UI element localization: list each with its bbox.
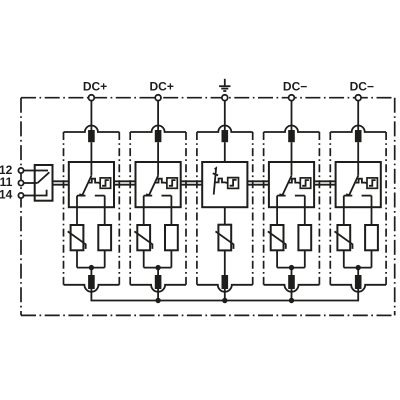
wire right branch to join, module 4: [304, 250, 306, 267]
switch blade tick, module 4: [279, 194, 283, 195]
link remote contact to module 1 upper: [53, 180, 69, 182]
svg-text:DC+: DC+: [150, 79, 174, 93]
fixed contact right, module 1: [95, 195, 105, 197]
switch feed wire inside box, module 5: [357, 162, 359, 176]
thermal disconnect fuse top, module 1: [88, 130, 95, 142]
thermal disconnect fuse top, module 2: [155, 130, 162, 142]
switch blade, module 5: [349, 176, 359, 197]
wire module 4 to bus: [291, 288, 293, 301]
wire fuse to switch box, module 3: [224, 142, 226, 162]
impulse symbol, module 3: [230, 180, 237, 186]
terminal circle DC- 1: [289, 95, 295, 101]
earth ground symbol: [224, 79, 226, 86]
wire terminal 1 down to module: [90, 101, 92, 131]
module 1 boundary left side: [63, 132, 65, 285]
switch feed wire inside box, module 2: [157, 162, 159, 176]
terminal circle 14: [18, 193, 23, 198]
bus junction dot 4: [289, 298, 294, 303]
varistor, module 4: [271, 225, 284, 250]
switch feed wire inside box, module 1: [90, 162, 92, 176]
switch feed wire inside box, module 4: [291, 162, 293, 176]
impulse symbol, module 2: [169, 180, 176, 186]
series element, module 5: [365, 225, 378, 250]
switch blade tick, module 1: [79, 194, 83, 195]
switch blade, module 2: [149, 176, 159, 197]
wire branch join, module 4: [277, 267, 305, 269]
junction dot, module 2: [155, 265, 160, 270]
impulse symbol, module 5: [369, 180, 376, 186]
svg-text:DC−: DC−: [350, 79, 374, 93]
wire join to bottom fuse, module 1: [90, 268, 92, 278]
trigger pulse link, module 5: [356, 179, 368, 184]
module 4 boundary right side: [318, 132, 320, 285]
switch blade, module 1: [82, 176, 92, 197]
enclosure boundary left: [20, 98, 22, 316]
spark-gap element stroke, module 3: [214, 168, 216, 195]
fixed contact left, module 4: [277, 195, 286, 197]
changeover fixed contact 12: [35, 170, 48, 172]
wire terminal 14: [24, 195, 35, 197]
link module 1 to module 2 lower: [114, 184, 136, 186]
wire branch join, module 5: [344, 267, 372, 269]
wire terminal 12: [24, 170, 35, 172]
wire right branch to join, module 1: [104, 250, 106, 267]
fixed contact right, module 5: [362, 195, 372, 197]
monitoring device box, module 5: [367, 178, 377, 188]
monitoring device box, module 3: [228, 178, 239, 189]
thermal disconnect fuse bottom, module 1: [88, 275, 95, 289]
module 5 boundary left side: [329, 132, 331, 285]
varistor diagonal, module 5: [335, 231, 353, 249]
varistor, module 5: [337, 225, 350, 250]
module 3 boundary top edge with plug-in dome: [197, 126, 253, 132]
varistor, module 3: [218, 225, 231, 251]
module 4 boundary bottom edge with plug-in dome: [264, 285, 320, 292]
svg-text:DC+: DC+: [83, 79, 107, 93]
fixed contact right, module 4: [295, 195, 305, 197]
wire left branch to join, module 1: [76, 250, 78, 267]
switch blade, module 4: [282, 176, 292, 197]
link module 2 to module 3 upper: [181, 180, 203, 182]
remote signalling contact box: [35, 165, 53, 201]
wire branch join, module 2: [144, 267, 172, 269]
link module 3 to module 4 lower: [247, 184, 269, 186]
bottom bus wire: [91, 288, 358, 301]
thermal disconnect fuse top, module 3: [222, 130, 229, 142]
svg-text:14: 14: [0, 187, 13, 201]
module 4 boundary left side: [263, 132, 265, 285]
series element, module 1: [98, 225, 111, 250]
module 5 boundary bottom edge with plug-in dome: [330, 285, 386, 292]
wire right branch drop, module 4: [304, 196, 306, 225]
fixed contact left, module 5: [344, 195, 353, 197]
switch/monitoring box, module 2: [136, 162, 181, 207]
wire right branch to join, module 5: [371, 250, 373, 267]
trigger pulse link, module 1: [89, 179, 101, 184]
varistor diagonal, module 1: [68, 231, 86, 249]
wire left branch drop, module 5: [343, 196, 345, 225]
wire fuse to switch box, module 1: [90, 142, 92, 162]
module 3 boundary left side: [196, 132, 198, 285]
junction dot, module 4: [289, 265, 294, 270]
fixed contact left, module 2: [144, 195, 153, 197]
thermal disconnect fuse bottom, module 4: [288, 275, 295, 289]
enclosure boundary top: [21, 97, 395, 99]
wire fuse to switch box, module 4: [291, 142, 293, 162]
wire branch join, module 1: [77, 267, 105, 269]
switch/monitoring box, module 1: [69, 162, 114, 207]
module 3 boundary bottom edge with plug-in dome: [197, 285, 253, 292]
wire right branch drop, module 1: [104, 196, 106, 225]
wire left branch to join, module 2: [143, 250, 145, 267]
module 2 boundary left side: [129, 132, 131, 285]
wire right branch to join, module 2: [170, 250, 172, 267]
wire module 2 to bus: [157, 288, 159, 301]
module 1 boundary top edge with plug-in dome: [64, 126, 120, 132]
link remote contact to module 1 lower: [53, 184, 69, 186]
wire terminal 11: [24, 182, 35, 184]
series element, module 2: [165, 225, 178, 250]
changeover fixed contact 14: [35, 190, 47, 196]
series element, module 4: [298, 225, 311, 250]
wire left branch drop, module 2: [143, 196, 145, 225]
wire terminal 5 down to module: [357, 101, 359, 131]
impulse symbol, module 1: [102, 180, 109, 186]
terminal circle 12: [18, 168, 23, 173]
wire left branch drop, module 1: [76, 196, 78, 225]
thermal disconnect fuse bottom, module 5: [355, 275, 362, 289]
link module 4 to module 5 lower: [314, 184, 336, 186]
wire fuse to switch box, module 5: [357, 142, 359, 162]
switch blade tick, module 5: [346, 194, 350, 195]
monitoring device box, module 1: [100, 178, 110, 188]
module 1 boundary bottom edge with plug-in dome: [64, 285, 120, 292]
switch/monitoring box, module 3: [202, 162, 247, 207]
junction dot, module 5: [356, 265, 361, 270]
wire terminal 3 down to module: [224, 101, 226, 131]
wire module 3 to bus: [224, 288, 226, 301]
enclosure boundary right: [394, 98, 396, 316]
fixed contact right, module 2: [162, 195, 172, 197]
trigger pulse link, module 4: [289, 179, 301, 184]
wire right branch drop, module 5: [371, 196, 373, 225]
wire terminal 4 down to module: [291, 101, 293, 131]
wire left branch drop, module 4: [276, 196, 278, 225]
monitoring device box, module 4: [300, 178, 310, 188]
wire left branch to join, module 4: [276, 250, 278, 267]
terminal circle DC- 2: [355, 95, 361, 101]
module 2 boundary bottom edge with plug-in dome: [130, 285, 186, 292]
switch blade tick, module 2: [146, 194, 150, 195]
changeover blade from 11: [35, 182, 38, 184]
impulse symbol, module 4: [302, 180, 309, 186]
thermal disconnect fuse top, module 4: [288, 130, 295, 142]
switch/monitoring box, module 4: [269, 162, 314, 207]
varistor, module 1: [71, 225, 84, 250]
terminal circle 11: [18, 180, 23, 185]
varistor diagonal, module 3: [216, 231, 234, 249]
module 4 boundary top edge with plug-in dome: [264, 126, 320, 132]
module 2 boundary right side: [185, 132, 187, 285]
wire box to varistor, module 3: [224, 207, 226, 225]
wire varistor to bottom fuse, module 3: [224, 250, 226, 277]
spark-gap tick, module 3: [213, 173, 218, 175]
module 5 boundary top edge with plug-in dome: [330, 126, 386, 132]
module 2 boundary top edge with plug-in dome: [130, 126, 186, 132]
link module 2 to module 3 lower: [181, 184, 203, 186]
thermal disconnect fuse bottom, module 2: [155, 275, 162, 289]
thermal disconnect fuse top, module 5: [355, 130, 362, 142]
varistor diagonal, module 2: [134, 231, 152, 249]
wire left branch to join, module 5: [343, 250, 345, 267]
module 5 boundary right side: [385, 132, 387, 285]
wire join to bottom fuse, module 4: [291, 268, 293, 278]
wire join to bottom fuse, module 2: [157, 268, 159, 278]
wire fuse to switch box, module 2: [157, 142, 159, 162]
wire join to bottom fuse, module 5: [357, 268, 359, 278]
monitoring device box, module 2: [167, 178, 177, 188]
trigger pulse link, module 2: [156, 179, 168, 184]
fixed contact left, module 1: [77, 195, 86, 197]
module 3 boundary right side: [252, 132, 254, 285]
wire right branch drop, module 2: [170, 196, 172, 225]
link module 3 to module 4 upper: [247, 180, 269, 182]
wire terminal 2 down to module: [157, 101, 159, 131]
thermal disconnect fuse bottom, module 3: [222, 275, 229, 289]
varistor, module 2: [137, 225, 150, 250]
switch/monitoring box, module 5: [336, 162, 381, 207]
terminal circle DC+ 2: [155, 95, 161, 101]
trigger pulse link, module 3: [215, 179, 227, 184]
varistor diagonal, module 4: [268, 231, 286, 249]
terminal circle DC+ 1: [89, 95, 95, 101]
svg-text:DC−: DC−: [283, 79, 307, 93]
link module 1 to module 2 upper: [114, 180, 136, 182]
enclosure boundary bottom: [21, 314, 395, 316]
bus junction dot 3: [222, 298, 227, 303]
link module 4 to module 5 upper: [314, 180, 336, 182]
module 1 boundary right side: [118, 132, 120, 285]
junction dot, module 1: [89, 265, 94, 270]
bus junction dot 2: [155, 298, 160, 303]
terminal circle earth: [222, 95, 228, 101]
